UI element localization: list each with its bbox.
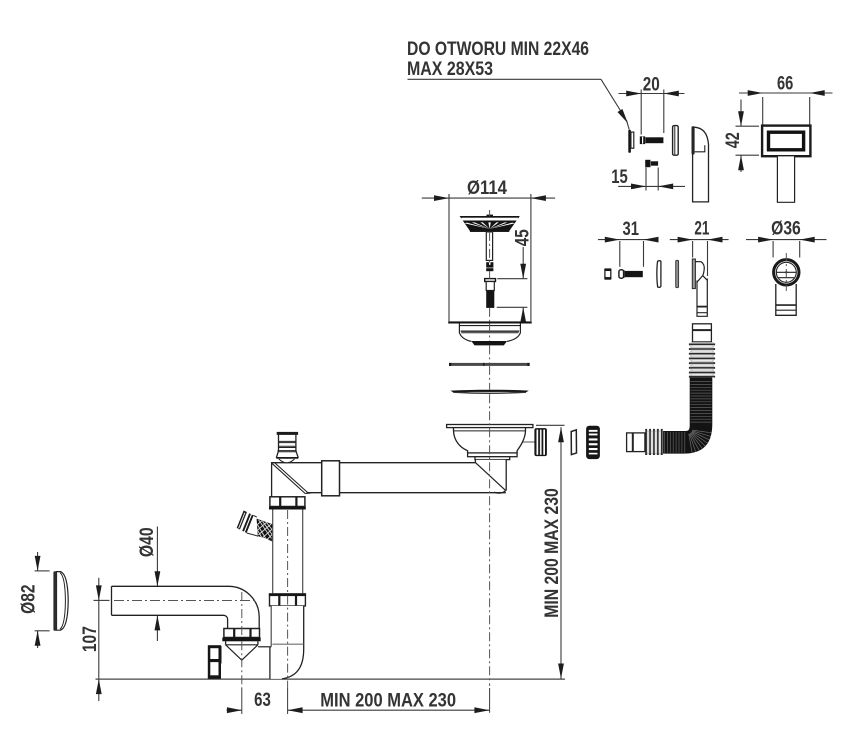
overflow tube below front view (777, 156, 794, 202)
baseline reference (96, 678, 566, 680)
clamp bracket (leader target) (628, 130, 634, 153)
dim 31 (598, 237, 659, 267)
overflow plug 45mm (485, 279, 496, 308)
nut mid (thick top) (269, 593, 306, 606)
gasket plate (overflow) (673, 126, 679, 156)
dim O114 (422, 194, 555, 321)
svg-text:Ø114: Ø114 (467, 177, 507, 199)
flat gasket strip (21 row) (676, 260, 679, 287)
strainer basket (umbrella) (460, 215, 520, 232)
sink flange top piece (448, 321, 532, 345)
svg-text:DO OTWORU MIN 22X46: DO OTWORU MIN 22X46 (407, 38, 589, 60)
svg-text:Ø36: Ø36 (771, 217, 801, 239)
svg-text:20: 20 (643, 73, 660, 95)
strainer body (447, 425, 535, 460)
overflow cover side view (692, 126, 709, 202)
svg-text:42: 42 (722, 132, 744, 148)
dim 21 (670, 237, 729, 276)
dishwasher barb fitting (diagonal) (237, 510, 274, 541)
outlet cone (226, 641, 258, 660)
screw long (20) (640, 136, 664, 144)
hose barb connector on tee top (276, 432, 298, 463)
dim 20 (619, 90, 685, 135)
O82 cap side view (53, 571, 68, 631)
dim MIN 200 MAX 230 vertical (536, 425, 565, 678)
svg-text:MIN 200 MAX 230: MIN 200 MAX 230 (541, 488, 563, 618)
screw short (31) (619, 270, 643, 278)
hose clamp piece (208, 645, 222, 679)
overflow elbow (21) (692, 259, 707, 316)
small square nut (605, 268, 612, 279)
O36 hose end fitting: tube (776, 284, 796, 315)
strainer tailpipe with miter (475, 460, 506, 494)
centerline left pipe vertical (241, 592, 243, 637)
tee body with miter (272, 463, 506, 497)
thin curved washer (571, 430, 576, 455)
strainer side outlet boss (534, 428, 547, 456)
pipe tee to lower nut (273, 510, 303, 594)
O36 hose end fitting: circular face (774, 260, 799, 285)
centerline strainer extension to bottom dim (489, 688, 491, 713)
dim O36 (746, 237, 827, 258)
hose dark vertical + elbow + horizontal run (663, 377, 712, 453)
centerline O36 circle (785, 253, 787, 291)
dim O40 (155, 527, 161, 642)
hose top cuff (693, 324, 712, 342)
hose lower light corrugation (645, 429, 663, 455)
hose upper light corrugation (689, 342, 715, 377)
svg-text:45: 45 (512, 229, 534, 246)
dim 42 (736, 100, 760, 173)
dim 107 (94, 578, 110, 701)
dim O82 (35, 552, 50, 648)
leader line for note (408, 79, 631, 130)
flat gasket 1 (449, 363, 530, 366)
svg-text:21: 21 (694, 217, 709, 239)
nut on cone joint (222, 629, 260, 642)
svg-text:MAX 28X53: MAX 28X53 (407, 58, 493, 80)
svg-text:MIN 200 MAX 230: MIN 200 MAX 230 (320, 690, 456, 712)
svg-text:66: 66 (777, 72, 793, 94)
curved washer (31 row) (657, 261, 661, 288)
centerline strainer vertical axis (489, 210, 491, 216)
centerline right pipe vertical (287, 510, 289, 593)
dim 63 / MIN 200 MAX 230 bottom (227, 707, 490, 713)
screw stub (15) (645, 160, 658, 167)
nut under tee (269, 497, 306, 510)
horizontal O40 pipe with elbow down (112, 586, 260, 628)
dim 45 (497, 247, 528, 322)
overflow front view (762, 126, 810, 157)
basket stem (486, 232, 492, 261)
flat gasket 2 (451, 390, 529, 394)
svg-text:Ø40: Ø40 (136, 527, 158, 557)
compression nut on tee outlet (322, 461, 340, 496)
centerline horizontal pipe (114, 600, 255, 602)
ribbed coupling nut (586, 426, 600, 459)
lower pipe with outlet elbow foot (258, 606, 304, 679)
dim 66 (739, 90, 833, 124)
svg-text:107: 107 (79, 626, 101, 652)
svg-text:31: 31 (623, 218, 640, 240)
svg-text:15: 15 (611, 166, 628, 188)
hose end cuff (627, 433, 645, 452)
svg-text:Ø82: Ø82 (18, 584, 40, 614)
stem clip (486, 262, 493, 271)
svg-text:63: 63 (254, 689, 271, 711)
dim 15 (618, 168, 685, 191)
